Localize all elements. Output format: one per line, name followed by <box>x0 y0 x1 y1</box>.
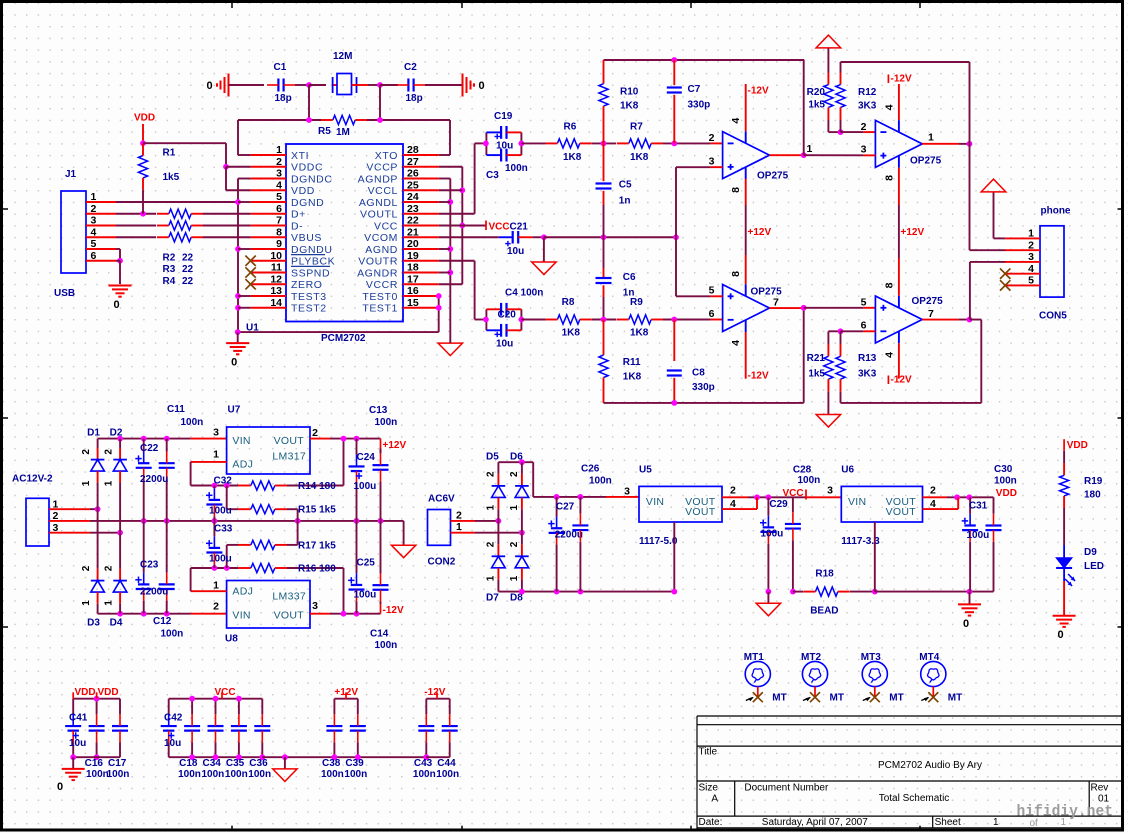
svg-text:10u: 10u <box>496 141 513 152</box>
svg-text:CON2: CON2 <box>428 557 456 568</box>
svg-text:3: 3 <box>53 522 59 534</box>
svg-text:LM317: LM317 <box>272 451 306 463</box>
svg-text:C5: C5 <box>619 180 632 191</box>
svg-text:1: 1 <box>81 600 92 606</box>
svg-text:R7: R7 <box>630 122 643 133</box>
svg-text:R11: R11 <box>623 357 641 368</box>
svg-text:D4: D4 <box>110 617 123 628</box>
svg-text:7: 7 <box>773 296 779 308</box>
svg-text:R17 1k5: R17 1k5 <box>298 540 336 551</box>
svg-text:U5: U5 <box>639 465 652 476</box>
svg-text:VDD: VDD <box>98 687 119 698</box>
svg-text:TEST2: TEST2 <box>291 303 327 315</box>
svg-text:4: 4 <box>730 340 742 346</box>
svg-text:4: 4 <box>730 498 736 510</box>
svg-text:R16 180: R16 180 <box>298 564 336 575</box>
svg-text:100u: 100u <box>209 554 232 565</box>
svg-text:8: 8 <box>276 226 282 238</box>
svg-text:VIN: VIN <box>848 496 866 508</box>
svg-text:1117-5.0: 1117-5.0 <box>639 536 678 547</box>
svg-text:11: 11 <box>271 262 282 274</box>
svg-text:2: 2 <box>103 565 114 571</box>
svg-text:Title: Title <box>699 747 718 758</box>
svg-text:U7: U7 <box>228 405 241 416</box>
svg-text:0: 0 <box>113 299 119 311</box>
svg-text:3: 3 <box>624 485 630 497</box>
svg-text:1: 1 <box>91 191 97 203</box>
svg-text:5: 5 <box>861 296 867 308</box>
svg-text:VDD: VDD <box>134 113 155 124</box>
svg-text:MT4: MT4 <box>919 652 939 663</box>
svg-text:VCC: VCC <box>489 222 510 233</box>
svg-text:USB: USB <box>54 288 75 299</box>
svg-text:SSPND: SSPND <box>291 267 330 279</box>
svg-text:D1: D1 <box>87 428 100 439</box>
svg-text:1: 1 <box>213 448 219 460</box>
svg-text:100u: 100u <box>209 505 232 516</box>
svg-text:4: 4 <box>930 498 936 510</box>
svg-text:100n: 100n <box>436 769 459 780</box>
svg-text:AC12V-2: AC12V-2 <box>12 474 53 485</box>
svg-text:1: 1 <box>807 143 813 155</box>
svg-text:22: 22 <box>407 215 419 227</box>
svg-text:100n: 100n <box>589 476 612 487</box>
svg-text:1: 1 <box>486 504 497 510</box>
svg-text:6: 6 <box>91 250 97 262</box>
svg-text:VDD: VDD <box>75 687 96 698</box>
svg-text:2: 2 <box>81 449 92 455</box>
svg-text:D3: D3 <box>87 617 100 628</box>
svg-text:LED: LED <box>1084 561 1104 572</box>
svg-text:hifidiy.net: hifidiy.net <box>1017 803 1114 821</box>
svg-text:0: 0 <box>231 357 237 369</box>
svg-text:C12: C12 <box>153 616 172 627</box>
svg-text:C38: C38 <box>322 758 341 769</box>
svg-text:2: 2 <box>1028 239 1034 251</box>
svg-text:330p: 330p <box>692 382 715 393</box>
svg-text:1K8: 1K8 <box>620 101 639 112</box>
svg-text:R1: R1 <box>163 148 176 159</box>
svg-text:OP275: OP275 <box>751 286 783 297</box>
svg-text:4: 4 <box>884 352 896 358</box>
svg-text:+12V: +12V <box>901 227 925 238</box>
svg-text:5: 5 <box>276 191 282 203</box>
svg-text:8: 8 <box>730 187 742 193</box>
svg-text:C18: C18 <box>179 758 198 769</box>
svg-text:Size: Size <box>699 782 719 793</box>
svg-text:C13: C13 <box>369 405 388 416</box>
svg-text:R4: R4 <box>163 276 176 287</box>
svg-text:27: 27 <box>407 156 419 168</box>
svg-text:3K3: 3K3 <box>858 369 877 380</box>
svg-text:22: 22 <box>182 253 194 264</box>
svg-text:R3: R3 <box>163 264 176 275</box>
svg-text:13: 13 <box>270 285 282 297</box>
svg-text:C8: C8 <box>692 368 705 379</box>
svg-text:AC6V: AC6V <box>428 494 455 505</box>
svg-text:23: 23 <box>407 203 419 215</box>
svg-text:C32: C32 <box>214 476 233 487</box>
svg-text:PCM2702 Audio By Ary: PCM2702 Audio By Ary <box>878 760 982 771</box>
svg-text:TEST0: TEST0 <box>362 291 398 303</box>
svg-text:C19: C19 <box>494 111 513 122</box>
svg-text:3: 3 <box>709 155 715 167</box>
svg-text:U6: U6 <box>841 465 854 476</box>
svg-text:R10: R10 <box>620 87 639 98</box>
svg-text:R12: R12 <box>858 87 877 98</box>
svg-text:R14 180: R14 180 <box>298 481 336 492</box>
svg-text:5: 5 <box>1028 275 1034 287</box>
svg-text:-12V: -12V <box>383 605 404 616</box>
svg-text:phone: phone <box>1041 206 1071 217</box>
svg-text:C27: C27 <box>556 502 575 513</box>
svg-text:100n: 100n <box>181 417 204 428</box>
svg-text:1K8: 1K8 <box>630 152 649 163</box>
svg-text:1: 1 <box>103 600 114 606</box>
svg-text:XTI: XTI <box>291 150 309 162</box>
svg-text:21: 21 <box>407 226 419 238</box>
svg-text:LM337: LM337 <box>272 590 306 602</box>
svg-text:C23: C23 <box>140 560 159 571</box>
svg-text:R21: R21 <box>807 353 826 364</box>
svg-text:4: 4 <box>730 118 742 124</box>
svg-text:VOUT: VOUT <box>886 506 917 518</box>
svg-text:VOUTR: VOUTR <box>358 256 398 268</box>
svg-text:PCM2702: PCM2702 <box>321 333 366 344</box>
svg-text:+12V: +12V <box>748 227 772 238</box>
svg-text:1k5: 1k5 <box>163 172 180 183</box>
svg-text:R18: R18 <box>815 568 834 579</box>
svg-text:1: 1 <box>81 480 92 486</box>
svg-text:3: 3 <box>827 484 833 496</box>
svg-text:OP275: OP275 <box>757 170 789 181</box>
svg-text:VIN: VIN <box>232 610 250 622</box>
svg-text:VOUT: VOUT <box>274 435 305 447</box>
svg-text:3: 3 <box>213 427 219 439</box>
svg-text:-12V: -12V <box>891 374 912 385</box>
svg-text:VCCP: VCCP <box>366 162 398 174</box>
svg-text:12M: 12M <box>333 51 352 62</box>
svg-text:VIN: VIN <box>232 435 250 447</box>
svg-text:R13: R13 <box>858 353 877 364</box>
svg-text:1: 1 <box>53 498 59 510</box>
svg-text:2: 2 <box>276 156 282 168</box>
svg-text:AGNDP: AGNDP <box>358 173 398 185</box>
svg-text:1K8: 1K8 <box>623 372 642 383</box>
svg-text:VDD: VDD <box>1067 440 1088 451</box>
svg-text:5: 5 <box>91 238 97 250</box>
svg-text:C17: C17 <box>108 758 127 769</box>
svg-text:4: 4 <box>91 226 97 238</box>
svg-text:6: 6 <box>276 203 282 215</box>
svg-text:1: 1 <box>509 575 520 581</box>
svg-text:330p: 330p <box>688 100 711 111</box>
svg-text:CON5: CON5 <box>1039 311 1067 322</box>
svg-text:DGND: DGND <box>291 197 324 209</box>
svg-text:18p: 18p <box>406 93 423 104</box>
svg-text:100n: 100n <box>375 640 398 651</box>
svg-text:2: 2 <box>509 541 520 547</box>
svg-text:100n: 100n <box>505 163 528 174</box>
svg-text:C11: C11 <box>167 404 185 415</box>
svg-text:100u: 100u <box>761 529 784 540</box>
svg-text:4: 4 <box>884 104 896 110</box>
svg-text:3: 3 <box>861 143 867 155</box>
svg-text:Rev: Rev <box>1091 782 1109 793</box>
svg-text:100n: 100n <box>248 769 271 780</box>
svg-text:Total Schematic: Total Schematic <box>879 793 950 804</box>
svg-text:AGNDR: AGNDR <box>357 267 398 279</box>
svg-text:R19: R19 <box>1084 476 1103 487</box>
svg-text:D6: D6 <box>510 452 523 463</box>
svg-text:1K8: 1K8 <box>563 152 582 163</box>
svg-text:C35: C35 <box>226 758 245 769</box>
svg-text:OP275: OP275 <box>910 156 942 167</box>
svg-text:2: 2 <box>53 510 59 522</box>
svg-text:17: 17 <box>407 273 419 285</box>
svg-text:BEAD: BEAD <box>810 606 838 617</box>
svg-text:R8: R8 <box>562 297 575 308</box>
svg-text:C4 100n: C4 100n <box>505 288 543 299</box>
svg-text:10: 10 <box>270 250 282 262</box>
svg-text:20: 20 <box>407 238 419 250</box>
svg-text:100u: 100u <box>354 590 377 601</box>
svg-text:100n: 100n <box>994 475 1017 486</box>
svg-text:VCC: VCC <box>215 687 236 698</box>
svg-text:MT1: MT1 <box>744 652 764 663</box>
svg-text:6: 6 <box>861 320 867 332</box>
svg-text:VDD: VDD <box>291 185 315 197</box>
svg-text:R6: R6 <box>564 122 577 133</box>
svg-text:10u: 10u <box>496 339 513 350</box>
svg-text:14: 14 <box>270 297 282 309</box>
svg-text:1n: 1n <box>619 196 631 207</box>
svg-text:3: 3 <box>91 215 97 227</box>
svg-text:2: 2 <box>103 449 114 455</box>
svg-text:MT: MT <box>830 693 844 704</box>
svg-text:100u: 100u <box>354 481 377 492</box>
svg-text:2: 2 <box>456 509 462 521</box>
svg-text:Document Number: Document Number <box>744 782 829 793</box>
svg-text:1: 1 <box>928 132 934 144</box>
svg-text:8: 8 <box>730 271 742 277</box>
svg-text:D+: D+ <box>291 209 306 221</box>
svg-text:100n: 100n <box>321 769 344 780</box>
svg-text:+12V: +12V <box>383 440 407 451</box>
svg-text:2: 2 <box>91 203 97 215</box>
svg-text:U8: U8 <box>225 634 238 645</box>
svg-text:100n: 100n <box>225 769 248 780</box>
svg-text:C22: C22 <box>140 443 159 454</box>
svg-text:100n: 100n <box>178 769 201 780</box>
svg-text:C41: C41 <box>69 713 88 724</box>
svg-text:A: A <box>711 793 718 804</box>
svg-text:2: 2 <box>509 471 520 477</box>
svg-text:R9: R9 <box>630 297 643 308</box>
svg-text:MT: MT <box>772 693 786 704</box>
svg-text:4: 4 <box>276 179 282 191</box>
svg-text:D5: D5 <box>486 452 499 463</box>
svg-text:R2: R2 <box>163 253 176 264</box>
svg-text:24: 24 <box>407 191 419 203</box>
svg-text:C39: C39 <box>345 758 364 769</box>
svg-text:C7: C7 <box>688 84 701 95</box>
svg-text:3K3: 3K3 <box>858 101 877 112</box>
svg-text:1K8: 1K8 <box>630 328 649 339</box>
svg-text:1k5: 1k5 <box>808 100 825 111</box>
svg-text:MT: MT <box>889 693 903 704</box>
svg-text:2: 2 <box>709 132 715 144</box>
svg-text:VDD: VDD <box>996 488 1017 499</box>
svg-text:R15 1k5: R15 1k5 <box>298 505 336 516</box>
svg-text:10u: 10u <box>164 738 181 749</box>
svg-text:7: 7 <box>276 215 282 227</box>
svg-text:-12V: -12V <box>748 371 769 382</box>
svg-text:2: 2 <box>730 484 736 496</box>
svg-text:100n: 100n <box>413 769 436 780</box>
svg-text:VCCR: VCCR <box>366 279 398 291</box>
svg-text:1K8: 1K8 <box>562 328 581 339</box>
svg-text:C3: C3 <box>486 170 499 181</box>
svg-text:2200u: 2200u <box>140 586 168 597</box>
svg-text:5: 5 <box>709 285 715 297</box>
svg-text:C31: C31 <box>969 501 988 512</box>
svg-text:-12V: -12V <box>748 85 769 96</box>
svg-text:C36: C36 <box>249 758 268 769</box>
svg-text:6: 6 <box>709 308 715 320</box>
svg-text:D9: D9 <box>1084 547 1097 558</box>
svg-text:C21: C21 <box>510 222 529 233</box>
svg-text:16: 16 <box>407 285 419 297</box>
svg-text:2: 2 <box>486 541 497 547</box>
svg-text:1: 1 <box>103 480 114 486</box>
svg-text:DGNDC: DGNDC <box>291 173 333 185</box>
svg-text:AGND: AGND <box>365 244 398 256</box>
svg-text:2200u: 2200u <box>555 530 583 541</box>
svg-text:100n: 100n <box>107 769 130 780</box>
svg-text:8: 8 <box>884 282 896 288</box>
svg-text:3: 3 <box>1028 251 1034 263</box>
svg-text:18p: 18p <box>275 93 292 104</box>
svg-text:2: 2 <box>312 427 318 439</box>
svg-text:180: 180 <box>1084 490 1101 501</box>
svg-text:0: 0 <box>963 618 969 630</box>
svg-text:12: 12 <box>270 273 282 285</box>
svg-text:TEST3: TEST3 <box>291 291 327 303</box>
svg-text:3: 3 <box>312 600 318 612</box>
svg-text:1: 1 <box>456 521 462 533</box>
svg-text:2: 2 <box>81 565 92 571</box>
svg-text:2: 2 <box>930 484 936 496</box>
svg-text:3: 3 <box>276 168 282 180</box>
svg-text:1: 1 <box>993 817 999 828</box>
svg-text:C24: C24 <box>357 452 376 463</box>
svg-text:VCC: VCC <box>374 220 398 232</box>
svg-text:2200u: 2200u <box>140 474 168 485</box>
svg-text:8: 8 <box>884 175 896 181</box>
svg-text:25: 25 <box>407 179 419 191</box>
svg-text:Saturday, April 07, 2007: Saturday, April 07, 2007 <box>762 817 868 828</box>
svg-text:TEST1: TEST1 <box>362 303 398 315</box>
svg-text:18: 18 <box>407 262 419 274</box>
svg-text:Sheet: Sheet <box>935 817 961 828</box>
svg-text:D2: D2 <box>110 428 123 439</box>
svg-text:C33: C33 <box>214 524 233 535</box>
svg-text:ZERO: ZERO <box>291 279 323 291</box>
svg-text:100n: 100n <box>202 769 225 780</box>
svg-text:C34: C34 <box>203 758 222 769</box>
svg-text:28: 28 <box>407 144 419 156</box>
svg-text:XTO: XTO <box>375 150 398 162</box>
svg-text:-12V: -12V <box>424 687 445 698</box>
svg-text:VIN: VIN <box>646 496 664 508</box>
svg-text:2: 2 <box>213 601 219 613</box>
svg-text:26: 26 <box>407 168 419 180</box>
svg-text:1: 1 <box>486 575 497 581</box>
svg-text:0: 0 <box>478 80 484 92</box>
svg-text:1: 1 <box>213 580 219 592</box>
svg-text:VOUT: VOUT <box>685 506 716 518</box>
svg-text:0: 0 <box>1058 629 1064 641</box>
svg-text:C14: C14 <box>370 629 389 640</box>
svg-text:AGNDL: AGNDL <box>359 197 398 209</box>
svg-text:C28: C28 <box>793 465 812 476</box>
svg-text:-12V: -12V <box>891 73 912 84</box>
svg-text:0: 0 <box>57 781 63 793</box>
svg-text:C1: C1 <box>274 62 287 73</box>
svg-text:R20: R20 <box>807 87 826 98</box>
svg-text:C26: C26 <box>581 464 600 475</box>
svg-text:0: 0 <box>206 80 212 92</box>
svg-text:J1: J1 <box>65 169 77 180</box>
svg-text:VCOM: VCOM <box>364 232 398 244</box>
svg-text:100n: 100n <box>161 629 184 640</box>
svg-text:100n: 100n <box>344 769 367 780</box>
svg-text:1k5: 1k5 <box>808 369 825 380</box>
svg-text:19: 19 <box>407 250 419 262</box>
svg-text:100n: 100n <box>375 417 398 428</box>
svg-text:15: 15 <box>407 297 419 309</box>
svg-text:1M: 1M <box>336 127 350 138</box>
svg-text:MT: MT <box>948 693 962 704</box>
svg-text:ADJ: ADJ <box>232 458 253 470</box>
svg-text:C29: C29 <box>769 499 788 510</box>
svg-text:100n: 100n <box>798 475 821 486</box>
svg-text:10u: 10u <box>69 738 86 749</box>
svg-text:C16: C16 <box>85 758 104 769</box>
svg-text:C6: C6 <box>623 272 636 283</box>
svg-text:C43: C43 <box>414 758 433 769</box>
svg-text:C30: C30 <box>994 464 1013 475</box>
svg-text:2: 2 <box>861 121 867 133</box>
svg-text:D-: D- <box>291 220 303 232</box>
svg-text:MT2: MT2 <box>801 652 821 663</box>
svg-text:1: 1 <box>509 504 520 510</box>
svg-text:22: 22 <box>182 276 194 287</box>
svg-text:VOUT: VOUT <box>274 610 305 622</box>
svg-text:1: 1 <box>276 144 282 156</box>
svg-text:VBUS: VBUS <box>291 232 322 244</box>
svg-text:MT3: MT3 <box>861 652 881 663</box>
svg-text:C20: C20 <box>498 310 517 321</box>
svg-text:10u: 10u <box>507 246 524 257</box>
svg-text:C42: C42 <box>164 713 183 724</box>
svg-text:D7: D7 <box>486 593 499 604</box>
svg-text:OP275: OP275 <box>912 296 944 307</box>
svg-text:7: 7 <box>928 308 934 320</box>
svg-text:100n: 100n <box>86 769 109 780</box>
svg-text:ADJ: ADJ <box>232 586 253 598</box>
